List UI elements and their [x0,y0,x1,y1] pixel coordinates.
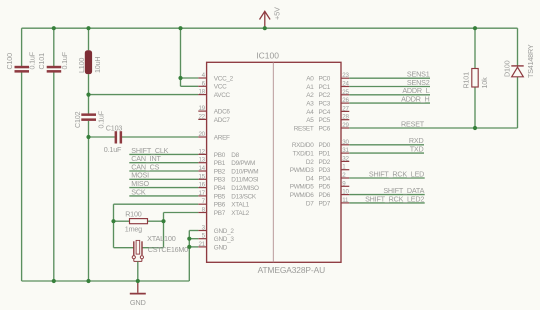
svg-text:PB2: PB2 [214,168,226,175]
svg-text:PC6: PC6 [318,125,330,132]
svg-text:18: 18 [199,89,206,96]
wire net CAN_CS [129,162,198,171]
svg-text:27: 27 [342,105,349,112]
svg-text:26: 26 [342,97,349,104]
power +5V [260,7,282,28]
svg-text:31: 31 [342,147,349,154]
pin 30 PD0 (right) [292,139,350,149]
wire VCC feed [181,28,199,86]
wire L100 column [88,28,90,94]
svg-text:TS4148RY: TS4148RY [526,44,535,78]
svg-text:TXD/D1: TXD/D1 [293,151,315,158]
wire net ADDR_H [349,95,430,104]
svg-text:PD2: PD2 [318,159,330,166]
svg-text:A4: A4 [306,109,314,116]
wire GND pins to rail [189,231,198,282]
pin 11 PD7 (right) [306,197,349,207]
wire net MOSI [129,171,198,180]
wire net MISO [129,179,198,188]
pin 9 PD5 (right) [290,180,350,190]
svg-text:10uH: 10uH [93,57,102,73]
svg-text:IC100: IC100 [256,51,279,61]
svg-text:PC0: PC0 [318,76,330,83]
svg-text:28: 28 [342,114,349,121]
svg-text:C102: C102 [73,111,82,128]
wire AVCC net [89,94,199,96]
svg-text:D10/PWM: D10/PWM [231,168,258,175]
inductor L100 [77,50,102,74]
svg-text:PD5: PD5 [318,184,330,191]
svg-text:ADC6: ADC6 [214,109,231,116]
svg-text:29: 29 [342,122,349,129]
node junction dots [52,26,477,283]
wire R101 column [474,28,476,128]
pin 25 PC2 (right) [306,89,349,99]
pin 13 PB1 (left) [198,157,255,167]
svg-text:C101: C101 [37,53,46,70]
svg-text:SHIFT_RCK_LED: SHIFT_RCK_LED [369,169,424,178]
svg-text:0.1uF: 0.1uF [28,51,37,69]
wire net CAN_INT [129,154,198,163]
wire net SCK [129,187,198,196]
wire net TXD [349,145,424,154]
pin 12 PB0 (left) [198,148,239,158]
svg-text:21: 21 [199,241,206,248]
svg-text:D100: D100 [502,60,511,77]
svg-text:A3: A3 [306,101,314,108]
svg-text:30: 30 [342,139,349,146]
capacitor C102 [73,110,106,128]
capacitor C100 [5,51,37,72]
wire net SENS1 [349,70,430,79]
svg-text:AREF: AREF [214,134,230,141]
svg-text:24: 24 [342,81,349,88]
svg-text:PC5: PC5 [318,117,330,124]
svg-text:22: 22 [199,113,206,120]
svg-text:PB7: PB7 [214,210,226,217]
pin 16 PB4 (left) [198,182,259,192]
pin 28 PC5 (right) [306,114,349,124]
svg-text:D13/SCK: D13/SCK [231,193,257,200]
pin 14 PB2 (left) [198,165,258,175]
svg-text:PB0: PB0 [214,152,226,159]
svg-text:PD7: PD7 [318,200,330,207]
pin 6 VCC (left) [198,80,227,90]
svg-text:32: 32 [342,155,349,162]
svg-text:25: 25 [342,89,349,96]
svg-text:PD0: PD0 [318,142,330,149]
wire XTAL2 net [142,213,199,248]
svg-text:GND_2: GND_2 [214,228,235,235]
svg-text:TXD: TXD [410,145,424,154]
pin 29 PC6 (right) [294,122,350,132]
svg-text:PB5: PB5 [214,193,226,200]
svg-text:D12/MISO: D12/MISO [231,185,259,192]
pin 18 AVCC (left) [198,89,230,99]
svg-text:PD3: PD3 [318,167,330,174]
pin 31 PD1 (right) [293,147,350,157]
svg-text:PWM/D3: PWM/D3 [290,167,315,174]
svg-text:XTAL1: XTAL1 [231,202,249,209]
pin 15 PB3 (left) [198,173,258,183]
wire C100 column [21,28,23,281]
svg-text:A1: A1 [306,84,314,91]
pin 3 GND_2 (left) [198,225,234,235]
wire net SHIFT_RCK_LED2 [349,194,424,203]
svg-text:A0: A0 [306,76,314,83]
svg-text:R100: R100 [125,209,142,218]
wire C102 column [88,95,90,281]
wire net SENS2 [349,78,430,87]
svg-text:ATMEGA328P-AU: ATMEGA328P-AU [258,265,325,275]
pin 7 PB6 (left) [198,198,249,208]
svg-text:10: 10 [342,189,349,196]
svg-text:SHIFT_RCK_LED2: SHIFT_RCK_LED2 [365,194,424,203]
svg-text:A5: A5 [306,117,314,124]
wire AREF net [89,136,199,138]
crystal XTAL100 CSTCE16M resonator [132,234,188,261]
wire C101 column [53,28,55,281]
svg-text:11: 11 [342,197,349,204]
pin 1 PD3 (right) [290,164,350,174]
wire +5V top rail [22,27,518,29]
svg-text:15: 15 [199,173,206,180]
svg-text:PB4: PB4 [214,185,226,192]
svg-text:PWM/D6: PWM/D6 [290,192,315,199]
svg-text:PWM/D5: PWM/D5 [290,184,315,191]
svg-text:D7: D7 [306,200,314,207]
pin 27 PC4 (right) [306,105,349,115]
svg-text:16: 16 [199,182,206,189]
pin 19 ADC6 (left) [198,105,230,115]
svg-text:PB6: PB6 [214,202,226,209]
wire net RESET [349,119,517,128]
svg-text:L100: L100 [77,58,86,73]
svg-text:VCC_2: VCC_2 [214,75,234,82]
svg-text:GND: GND [130,298,146,307]
ground GND [130,281,146,307]
resistor R101 [462,69,490,89]
svg-text:PC3: PC3 [318,101,330,108]
svg-text:0.1uF: 0.1uF [104,145,122,154]
svg-text:XTAL100: XTAL100 [147,234,176,243]
svg-text:XTAL2: XTAL2 [231,210,249,217]
svg-text:10k: 10k [480,77,489,89]
svg-text:GND_3: GND_3 [214,236,235,243]
svg-text:A2: A2 [306,92,314,99]
pin 23 PC0 (right) [306,72,349,82]
svg-text:1meg: 1meg [125,225,142,234]
svg-text:PD1: PD1 [318,151,330,158]
pin 10 PD6 (right) [290,189,350,199]
svg-text:PB3: PB3 [214,177,226,184]
svg-text:RESET: RESET [401,119,425,128]
svg-text:0.1uF: 0.1uF [60,51,69,69]
svg-text:D11/MOSI: D11/MOSI [231,177,258,184]
wire net SHIFT_RCK_LED [349,169,424,178]
diode D100 TS4148RY [502,44,534,78]
svg-text:17: 17 [199,190,206,197]
pin 5 GND_3 (left) [198,233,234,243]
capacitor C103 [104,123,123,154]
pin 21 GND (left) [198,241,227,251]
wire bottom GND rail [22,280,190,282]
svg-text:13: 13 [199,157,206,164]
pin 17 PB5 (left) [198,190,257,200]
svg-text:D8: D8 [231,152,239,159]
svg-text:SCK: SCK [131,187,146,196]
svg-text:VCC: VCC [214,84,227,91]
svg-text:AVCC: AVCC [214,92,231,99]
svg-text:PC2: PC2 [318,92,330,99]
svg-text:12: 12 [199,148,206,155]
svg-text:ADC7: ADC7 [214,117,231,124]
svg-text:D9/PWM: D9/PWM [231,160,255,167]
pin 32 PD2 (right) [306,155,350,165]
svg-text:ADDR_H: ADDR_H [401,95,429,104]
svg-text:C103: C103 [106,123,123,132]
svg-text:D2: D2 [306,159,314,166]
svg-text:CSTCE16M0: CSTCE16M0 [148,245,188,254]
wire XTAL1 net [114,204,199,248]
wire net SHIFT_CLK [129,146,198,155]
wire net SHIFT_DATA [349,186,424,195]
svg-text:14: 14 [199,165,206,172]
svg-text:R101: R101 [462,72,471,89]
svg-text:PC4: PC4 [318,109,330,116]
svg-text:C100: C100 [5,53,14,70]
pin 4 VCC_2 (left) [198,72,233,82]
pin 20 AREF (left) [198,131,230,141]
pin 2 PD4 (right) [306,172,349,182]
svg-text:D4: D4 [306,175,314,182]
svg-text:19: 19 [199,105,206,112]
svg-text:PD4: PD4 [318,175,330,182]
pin 26 PC3 (right) [306,97,349,107]
svg-text:23: 23 [342,72,349,79]
svg-text:GND: GND [214,244,228,251]
svg-text:20: 20 [199,131,206,138]
wire net ADDR_L [349,86,430,95]
svg-text:+5V: +5V [272,7,281,20]
svg-text:RESET: RESET [294,125,314,132]
svg-text:0.1uF: 0.1uF [97,110,106,128]
capacitor C101 [37,51,69,72]
wire resonator GND pin [137,261,139,281]
wire D100 column [517,28,519,128]
svg-text:PC1: PC1 [318,84,330,91]
op-amp U1: IC100 ATMEGA328P-AU box [207,51,341,276]
resistor R100 [114,209,164,233]
svg-text:PB1: PB1 [214,160,226,167]
svg-text:PD6: PD6 [318,192,330,199]
pin 24 PC1 (right) [306,81,349,91]
wire net RXD [349,136,424,145]
svg-text:RXD/D0: RXD/D0 [292,142,314,149]
pin 22 ADC7 (left) [198,113,230,123]
pin 8 PB7 (left) [198,207,249,217]
